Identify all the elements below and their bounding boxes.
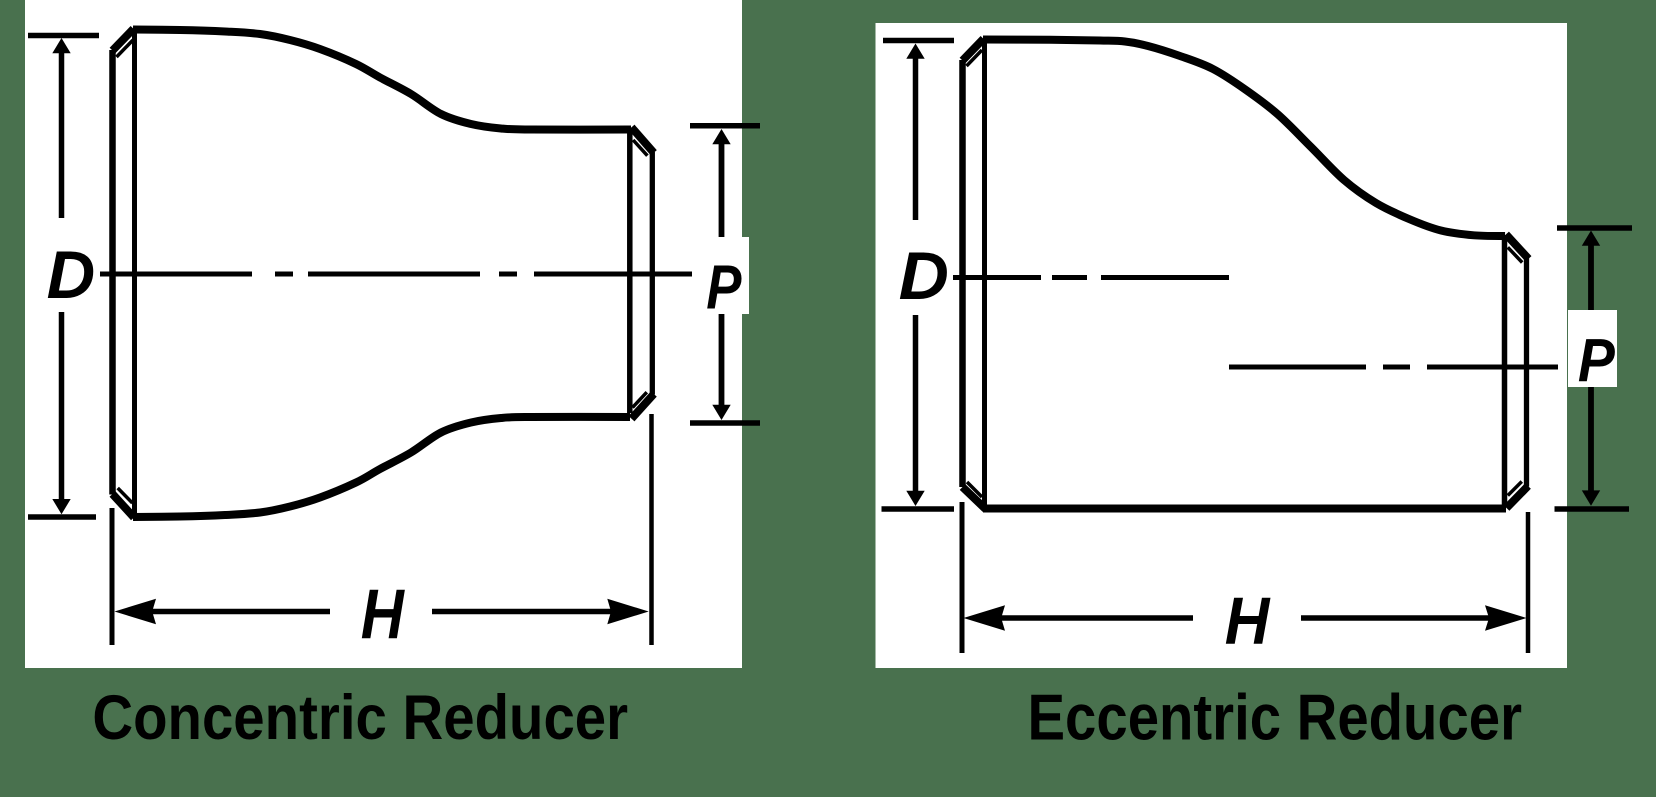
concentric P dimension line lower bbox=[719, 313, 725, 410]
concentric big end outer face line bbox=[109, 50, 116, 495]
eccentric big end top bevel thin line bbox=[967, 50, 983, 66]
svg-text:Eccentric Reducer: Eccentric Reducer bbox=[1028, 681, 1522, 754]
eccentric small end top chamfer bbox=[1506, 234, 1529, 258]
concentric top contour bbox=[133, 30, 631, 130]
concentric bottom contour bbox=[133, 417, 630, 517]
concentric small end inner vertical line bbox=[627, 129, 633, 413]
eccentric D bottom tick bbox=[882, 506, 955, 512]
eccentric P label background bbox=[1568, 310, 1617, 387]
eccentric P bottom tick bbox=[1555, 506, 1630, 512]
concentric small end top bevel thin line bbox=[633, 140, 647, 156]
concentric big end top chamfer bbox=[113, 29, 134, 51]
eccentric small end bottom chamfer bbox=[1507, 486, 1529, 508]
concentric D arrowhead down bbox=[52, 499, 70, 514]
svg-text:D: D bbox=[899, 238, 949, 314]
left white panel bbox=[25, 0, 742, 668]
svg-text:P: P bbox=[1578, 327, 1615, 395]
eccentric H label bbox=[1225, 583, 1271, 658]
eccentric small end outer face line bbox=[1524, 258, 1529, 487]
eccentric D arrowhead up bbox=[906, 44, 924, 59]
concentric H label bbox=[361, 575, 406, 654]
concentric P dimension line upper bbox=[719, 140, 725, 240]
eccentric big end centerline bbox=[953, 275, 1229, 280]
concentric H right extension line bbox=[649, 414, 654, 645]
eccentric H arrowhead right bbox=[1485, 605, 1527, 631]
eccentric bottom contour bbox=[983, 505, 1506, 513]
eccentric top contour bbox=[983, 40, 1505, 237]
concentric big end bottom bevel thin line bbox=[118, 488, 133, 503]
eccentric D arrowhead down bbox=[906, 491, 924, 506]
concentric P top tick bbox=[690, 123, 760, 129]
concentric P label bbox=[706, 254, 742, 323]
eccentric P dimension line upper bbox=[1588, 242, 1594, 312]
concentric small end top chamfer bbox=[632, 127, 654, 153]
concentric H dimension line left bbox=[145, 609, 330, 615]
concentric D arrowhead up bbox=[52, 38, 70, 53]
eccentric small end top bevel thin line bbox=[1508, 247, 1522, 262]
svg-text:Concentric Reducer: Concentric Reducer bbox=[92, 682, 628, 753]
eccentric H right extension line bbox=[1526, 512, 1531, 653]
svg-text:D: D bbox=[47, 238, 96, 313]
concentric P label background bbox=[713, 237, 749, 314]
eccentric H dimension line left bbox=[995, 615, 1193, 621]
concentric small end outer face line bbox=[650, 152, 655, 395]
concentric big end top bevel thin line bbox=[117, 40, 134, 57]
concentric small end bottom chamfer bbox=[632, 394, 654, 419]
eccentric P label bbox=[1578, 327, 1615, 395]
eccentric big end outer face line bbox=[959, 60, 966, 487]
eccentric big end bottom chamfer bbox=[963, 487, 986, 509]
concentric D dimension line upper bbox=[59, 50, 65, 218]
concentric H arrowhead right bbox=[607, 599, 648, 625]
eccentric small end bottom bevel thin line bbox=[1508, 482, 1522, 496]
concentric H left extension line bbox=[110, 508, 115, 645]
concentric P arrowhead down bbox=[712, 405, 730, 420]
caption Eccentric Reducer bbox=[1028, 681, 1522, 754]
concentric big end bottom chamfer bbox=[113, 494, 135, 518]
eccentric small end inner vertical line bbox=[1502, 235, 1508, 505]
svg-text:H: H bbox=[1225, 583, 1271, 658]
eccentric P arrowhead down bbox=[1582, 490, 1600, 505]
eccentric big end top chamfer bbox=[963, 39, 984, 61]
svg-text:P: P bbox=[706, 254, 742, 323]
caption Concentric Reducer bbox=[92, 682, 628, 753]
eccentric D dimension line lower bbox=[913, 315, 919, 493]
concentric H dimension line right bbox=[432, 609, 618, 615]
concentric P bottom tick bbox=[690, 420, 760, 426]
concentric P arrowhead up bbox=[712, 129, 730, 144]
eccentric D label bbox=[899, 238, 949, 314]
concentric small end bottom bevel thin line bbox=[633, 392, 647, 407]
concentric centerline bbox=[100, 272, 692, 277]
eccentric H dimension line right bbox=[1301, 615, 1495, 621]
eccentric D top tick bbox=[883, 38, 954, 44]
concentric big end inner vertical line bbox=[132, 31, 137, 513]
eccentric H left extension line bbox=[960, 502, 965, 653]
eccentric P dimension line lower bbox=[1588, 385, 1594, 497]
eccentric big end inner vertical line bbox=[982, 40, 987, 506]
concentric D bottom tick bbox=[28, 514, 96, 520]
eccentric P arrowhead up bbox=[1582, 231, 1600, 246]
concentric D dimension line lower bbox=[59, 312, 65, 501]
svg-text:H: H bbox=[361, 575, 406, 654]
right white panel bbox=[876, 23, 1568, 668]
eccentric P top tick bbox=[1557, 225, 1632, 231]
eccentric D dimension line upper bbox=[913, 55, 919, 220]
eccentric big end bottom bevel thin line bbox=[967, 482, 982, 497]
concentric D label bbox=[47, 238, 96, 313]
eccentric small end centerline bbox=[1229, 365, 1558, 370]
eccentric H arrowhead left bbox=[964, 605, 1006, 631]
concentric D top tick bbox=[28, 33, 99, 39]
concentric H arrowhead left bbox=[115, 599, 157, 625]
